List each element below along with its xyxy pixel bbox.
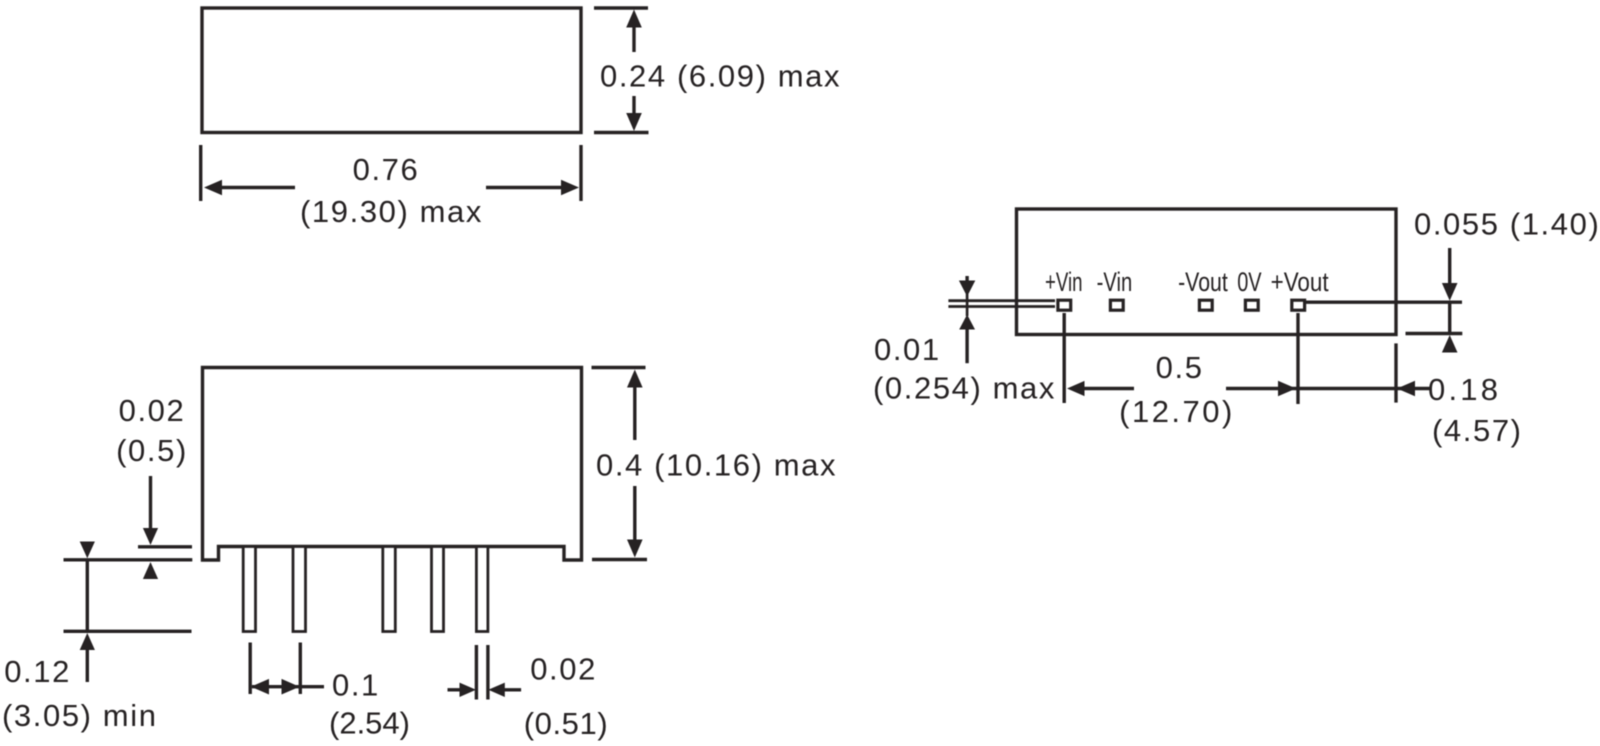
dim 0.02 pin width: extension lines <box>476 645 488 700</box>
svg-text:+Vin: +Vin <box>1045 267 1083 297</box>
svg-text:0.18: 0.18 <box>1428 372 1501 407</box>
svg-text:-Vout: -Vout <box>1178 267 1228 297</box>
pad 0V <box>1245 300 1258 310</box>
dim 0.02 pin width arrowhead right <box>460 683 477 697</box>
svg-text:(3.05) min: (3.05) min <box>2 698 158 733</box>
dim 0.01: upper arrow stub <box>965 276 968 282</box>
dim 0.76 arrowhead left <box>204 180 222 196</box>
dim 0.5: arrow shaft left <box>1081 387 1134 390</box>
dim 0.02 pin width: left arrow tail <box>448 688 463 691</box>
dim 0.18: extension line <box>1394 343 1397 402</box>
svg-text:0.055 (1.40): 0.055 (1.40) <box>1414 206 1600 241</box>
dim 0.4 arrowhead down <box>627 540 643 558</box>
dim 0.24 height: arrow line upper <box>632 26 635 52</box>
dim 0.02 pin width arrowhead left <box>488 683 505 697</box>
pad -Vin <box>1110 300 1123 310</box>
dim 0.18 arrowhead left <box>1397 381 1415 397</box>
dim 0.12: lower arrow tail <box>86 649 89 682</box>
dim 0.02 standoff: reference line B <box>64 558 193 561</box>
dim 0.76 width: arrow line right <box>486 186 563 189</box>
dim 0.02 standoff: arrow tail upper <box>149 476 152 530</box>
top view body outline <box>202 8 581 133</box>
dim 0.01 arrowhead up <box>959 315 975 330</box>
dim 0.02 standoff arrowhead down <box>143 528 158 545</box>
svg-text:0.02: 0.02 <box>530 652 597 687</box>
dim 0.1 pitch: arrow shaft <box>252 685 324 688</box>
dim 0.1 arrowhead left <box>251 679 269 695</box>
dim 0.12: arrow line <box>86 560 89 632</box>
dim 0.01: hourglass stem <box>966 294 969 316</box>
dim 0.02 standoff: reference line A <box>138 545 192 548</box>
dim 0.4 arrowhead up <box>627 370 643 388</box>
pin profile double line upper <box>948 299 1055 302</box>
dim 0.5 arrowhead right <box>1278 381 1296 397</box>
svg-text:+Vout: +Vout <box>1271 267 1329 297</box>
svg-text:(0.5): (0.5) <box>116 433 188 468</box>
pin 3 side view <box>383 547 396 632</box>
pin profile double line lower <box>948 305 1055 308</box>
svg-text:0.76: 0.76 <box>353 152 420 187</box>
svg-text:(4.57): (4.57) <box>1432 413 1523 448</box>
dim 0.76 width: extension ticks <box>201 145 581 201</box>
pad -Vout <box>1199 300 1212 310</box>
svg-text:0V: 0V <box>1237 267 1261 297</box>
dim 0.055: mid line <box>1448 301 1451 333</box>
dim 0.4 height: extension ticks <box>592 368 648 560</box>
dim 0.76 arrowhead right <box>561 180 579 196</box>
svg-text:-Vin: -Vin <box>1097 267 1133 297</box>
dim 0.12: reference line C <box>64 630 192 633</box>
svg-text:0.4 (10.16) max: 0.4 (10.16) max <box>596 448 837 483</box>
svg-text:(2.54): (2.54) <box>329 706 410 741</box>
pad +Vout <box>1292 300 1305 310</box>
dim 0.02 pin width: right arrow tail <box>503 688 521 691</box>
dim 0.12 arrowhead down <box>80 542 95 559</box>
dim 0.5 arrowhead left <box>1067 381 1085 396</box>
extension line below pad +Vin <box>1062 313 1065 403</box>
pad +Vout side line <box>1305 301 1462 304</box>
dim 0.055 arrowhead up <box>1442 335 1458 353</box>
svg-text:0.01: 0.01 <box>874 332 941 367</box>
dim 0.055: upper arrow tail <box>1448 248 1451 284</box>
dim 0.055 lower reference tick <box>1406 332 1463 335</box>
svg-text:0.02: 0.02 <box>119 393 186 428</box>
pin 5 side view <box>476 547 488 632</box>
pin 1 side view <box>243 547 255 632</box>
dim 0.12 arrowhead up <box>80 633 95 650</box>
bottom view body outline <box>1017 209 1397 335</box>
svg-text:(0.254) max: (0.254) max <box>873 371 1056 406</box>
dim 0.24 height: arrow line lower <box>632 96 635 114</box>
dim 0.01: lower arrow tail <box>965 329 968 364</box>
svg-text:0.24 (6.09) max: 0.24 (6.09) max <box>600 59 841 94</box>
dim 0.1 arrowhead right <box>282 679 300 695</box>
side view body outline <box>203 368 582 561</box>
pin 4 side view <box>432 547 444 632</box>
dim 0.055 arrowhead down <box>1442 283 1458 301</box>
svg-text:(12.70): (12.70) <box>1119 394 1235 429</box>
dim 0.02 standoff arrowhead up <box>143 562 158 579</box>
svg-text:0.5: 0.5 <box>1156 350 1204 385</box>
pin 2 side view <box>293 547 306 632</box>
svg-text:(19.30) max: (19.30) max <box>300 194 483 229</box>
dim 0.24 height: extension ticks <box>594 8 649 133</box>
dim 0.5/0.18 shared shaft <box>1226 387 1430 390</box>
dim 0.1 pitch: extension lines <box>250 643 300 695</box>
dim 0.4: arrow line lower <box>633 486 636 541</box>
dim 0.24 arrowhead down <box>626 113 642 131</box>
svg-text:0.1: 0.1 <box>332 668 380 703</box>
extension line below pad +Vout <box>1296 313 1299 404</box>
dim 0.4: arrow line upper <box>633 386 636 440</box>
svg-text:(0.51): (0.51) <box>524 706 609 741</box>
svg-text:0.12: 0.12 <box>4 654 71 689</box>
dim 0.76 width: arrow line left <box>219 186 295 189</box>
pad +Vin <box>1058 300 1071 310</box>
dim 0.01 arrowhead down <box>959 281 975 297</box>
dim 0.24 arrowhead up <box>626 10 642 28</box>
